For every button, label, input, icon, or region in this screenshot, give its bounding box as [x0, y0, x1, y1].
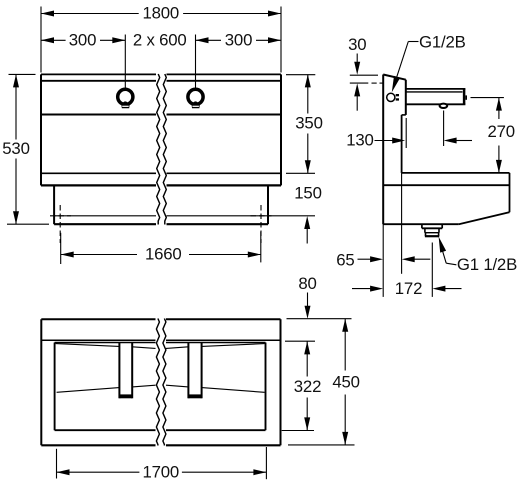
- dimension 270: [471, 98, 515, 173]
- leader G1 1/2B: [439, 237, 517, 275]
- dimension 1800: [41, 4, 281, 73]
- plan rear ledge line: [41, 339, 280, 341]
- svg-text:80: 80: [298, 274, 316, 293]
- svg-text:G1 1/2B: G1 1/2B: [457, 255, 517, 274]
- dimension 30: [348, 35, 366, 111]
- dimension 130: [346, 111, 472, 150]
- svg-text:2 x 600: 2 x 600: [133, 30, 187, 49]
- label 2 x 600: [133, 30, 187, 49]
- right leg centerline cross (dashed): [251, 205, 272, 243]
- dimension 350: [286, 74, 323, 173]
- tap centerline extension left: [124, 35, 126, 89]
- dimension 65: [336, 250, 430, 269]
- tick for 30 top: [350, 74, 378, 76]
- svg-text:172: 172: [395, 279, 422, 298]
- svg-text:1800: 1800: [143, 4, 180, 23]
- svg-text:130: 130: [346, 131, 373, 150]
- plan left drain pillar: [119, 343, 132, 399]
- dimension 80: [298, 274, 316, 319]
- dimension 150: [268, 184, 322, 244]
- spout aerator outlet: [440, 104, 448, 108]
- plan slope lines left half: [56, 344, 156, 393]
- waste drain fitting: [422, 224, 442, 236]
- plan view outer outline: [41, 319, 280, 445]
- basin bottom with chamfer: [383, 212, 509, 224]
- leader G1/2B: [392, 32, 466, 92]
- svg-text:65: 65: [336, 250, 354, 269]
- svg-text:1700: 1700: [143, 462, 180, 481]
- dimension 322: [294, 341, 321, 430]
- plan right drain pillar: [188, 343, 201, 399]
- plan 322-top extension line: [285, 340, 315, 342]
- svg-text:270: 270: [487, 122, 514, 141]
- dimension 300 left: [41, 30, 125, 49]
- dimension 172: [352, 279, 462, 298]
- plan break line: [156, 319, 166, 446]
- svg-text:G1/2B: G1/2B: [419, 32, 466, 51]
- svg-text:300: 300: [69, 30, 96, 49]
- front break line: [157, 74, 167, 225]
- front view base plinth: [54, 185, 268, 224]
- svg-text:300: 300: [225, 30, 252, 49]
- left tap symbol: [118, 89, 133, 108]
- svg-text:450: 450: [332, 373, 359, 392]
- side view wall panel: [383, 75, 406, 225]
- wall extension line: [382, 224, 384, 297]
- panel front extension line: [401, 173, 403, 274]
- svg-text:350: 350: [295, 114, 322, 133]
- tap spout: [406, 89, 467, 104]
- dimension 1700: [57, 447, 267, 481]
- svg-text:530: 530: [2, 139, 29, 158]
- svg-text:30: 30: [348, 35, 366, 54]
- basin rim flange: [383, 173, 509, 212]
- left leg centerline cross (dashed): [50, 205, 71, 243]
- hidden supply line (dashed): [350, 82, 383, 84]
- tap centerline extension right: [195, 35, 197, 89]
- svg-text:1660: 1660: [145, 245, 182, 264]
- drain centerline extension: [431, 243, 433, 297]
- dimension 300 right: [196, 30, 282, 49]
- right tap symbol: [188, 89, 203, 108]
- dimension 530: [2, 74, 49, 224]
- dimension 1660: [61, 232, 261, 265]
- svg-text:322: 322: [294, 377, 321, 396]
- dimension 450: [332, 319, 359, 445]
- svg-text:150: 150: [294, 184, 321, 203]
- front view trough body outline: [41, 74, 281, 185]
- inlet fitting marks: [396, 94, 399, 101]
- plan 322-bottom extension line: [282, 430, 314, 432]
- plan basin inner outline: [55, 343, 266, 431]
- plan bottom extension line: [288, 444, 355, 446]
- inlet circle G1/2B: [387, 93, 395, 101]
- plan top extension line: [287, 318, 352, 320]
- plan slope lines right half: [166, 344, 265, 393]
